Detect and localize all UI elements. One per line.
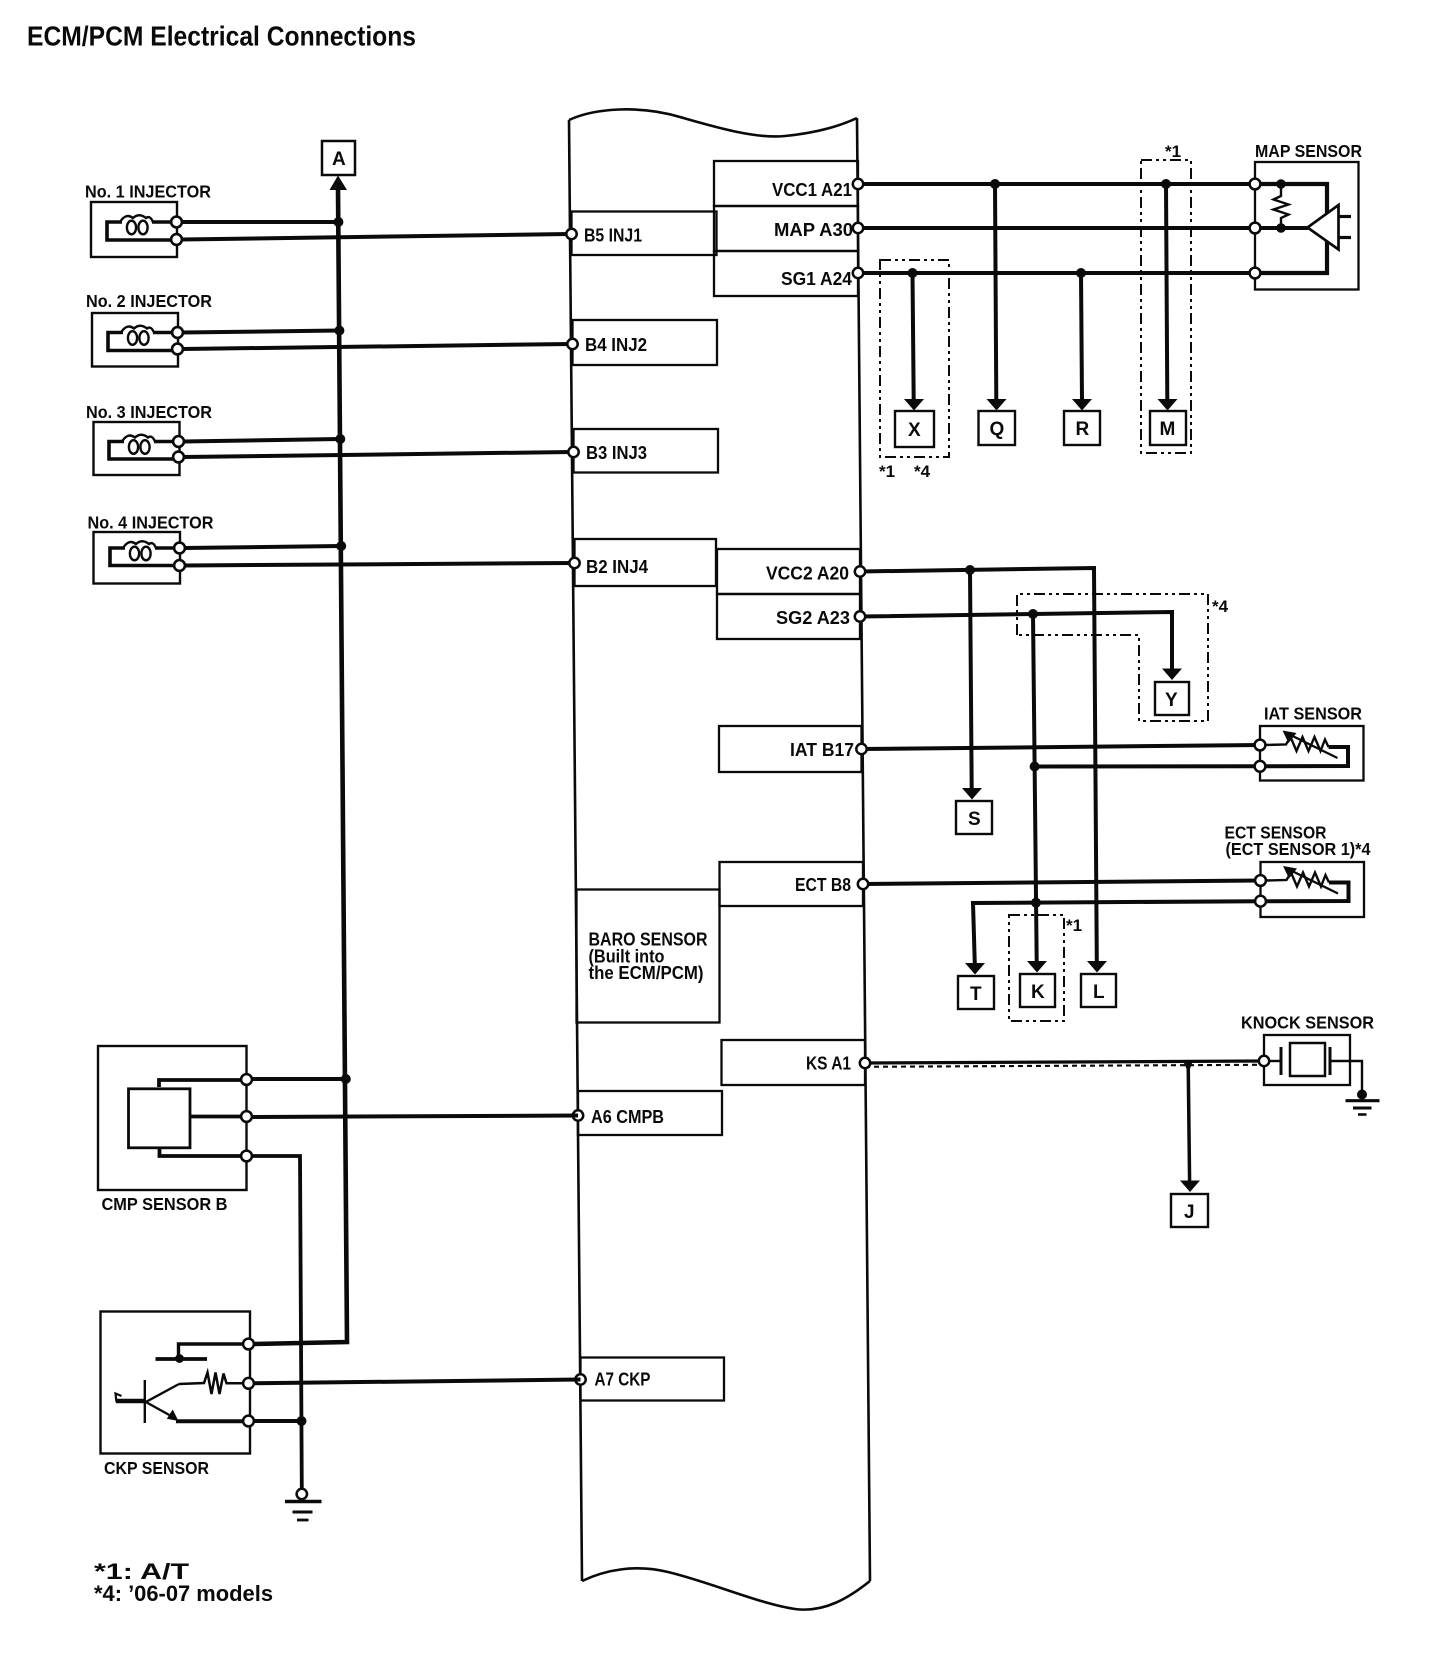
magnet bar <box>116 1399 146 1404</box>
ground symbol <box>285 1489 322 1520</box>
wire MAP A30 to amplifier <box>858 226 1308 230</box>
pin box B3 INJ3 <box>568 429 718 473</box>
wire INJ4 top to bus <box>184 546 341 548</box>
CKP sensor <box>101 1312 251 1454</box>
svg-text:B4 INJ2: B4 INJ2 <box>585 334 647 355</box>
wire drop to X <box>904 268 924 411</box>
wire IAT sensor return <box>1035 764 1261 768</box>
pin box KS A1 <box>722 1040 866 1085</box>
wire INJ2 top to bus <box>182 331 339 333</box>
svg-text:J: J <box>1184 1202 1195 1223</box>
svg-text:X: X <box>908 420 921 441</box>
wire CMP top terminal to bus <box>251 1077 346 1081</box>
svg-text:*4: *4 <box>1212 597 1229 616</box>
pin terminal INJ4 top <box>174 543 185 554</box>
pin terminal VCC1 A21 <box>853 179 863 189</box>
connector S <box>956 801 992 834</box>
svg-text:MAP SENSOR: MAP SENSOR <box>1255 141 1362 161</box>
wire CKP bottom terminal to ground run <box>254 1419 303 1423</box>
MAP sensor <box>1250 141 1363 290</box>
pin terminal CKP middle <box>243 1378 254 1389</box>
wire INJ3 bottom to pin B3 <box>183 452 572 457</box>
svg-text:SG2 A23: SG2 A23 <box>776 607 850 628</box>
svg-text:T: T <box>970 984 982 1005</box>
resistor in MAP sensor <box>1274 184 1289 228</box>
svg-text:No. 3 INJECTOR: No. 3 INJECTOR <box>86 402 212 422</box>
svg-text:No. 2 INJECTOR: No. 2 INJECTOR <box>86 291 212 311</box>
pin box B2 INJ4 <box>569 539 716 586</box>
wire CMP middle terminal to pin A6 <box>251 1116 578 1118</box>
dash-dot box around X (*1 *4) <box>880 260 949 457</box>
pin terminal INJ1 bottom <box>171 234 182 245</box>
dash-dot stepped box around Y (*4) <box>1017 594 1208 721</box>
pin terminal KS A1 <box>860 1058 870 1068</box>
injector No.2 <box>92 313 178 367</box>
svg-text:*1: *1 <box>879 462 895 481</box>
wire drop to S <box>962 565 982 800</box>
MAP sensor terminals <box>1250 179 1261 190</box>
pin terminal SG1 A24 <box>853 268 863 278</box>
svg-text:*1: *1 <box>1066 916 1082 935</box>
wire VCC2 A20 with corner to L <box>860 568 1107 973</box>
wire SG2 A23 with corner to Y <box>860 612 1182 680</box>
BARO sensor note box <box>577 890 720 1023</box>
pin terminal ECT B8 <box>858 879 868 889</box>
svg-text:(ECT SENSOR 1)*4: (ECT SENSOR 1)*4 <box>1226 839 1371 859</box>
wire IAT B17 to IAT sensor <box>862 745 1262 749</box>
pin terminal INJ3 bottom <box>173 452 184 463</box>
connector X <box>895 411 934 447</box>
connector L <box>1081 974 1116 1007</box>
CMP sensor B <box>98 1046 247 1190</box>
connector M <box>1150 411 1186 445</box>
pin terminal SG2 A23 <box>855 611 865 621</box>
svg-text:No. 4 INJECTOR: No. 4 INJECTOR <box>88 513 214 533</box>
svg-text:SG1 A24: SG1 A24 <box>781 268 853 289</box>
injector No.1 <box>91 202 177 257</box>
pin box MAP A30 <box>714 206 858 251</box>
svg-text:B2 INJ4: B2 INJ4 <box>586 556 649 577</box>
pin terminal IAT B17 <box>856 744 866 754</box>
node: junction ground run <box>297 1416 307 1426</box>
pin terminal INJ2 top <box>172 327 183 338</box>
wire: main vertical bus to connector A <box>254 176 347 1345</box>
svg-text:IAT SENSOR: IAT SENSOR <box>1264 704 1362 724</box>
wire drop to M <box>1158 179 1178 411</box>
wire KS shield (dashed) <box>865 1065 1262 1067</box>
connector A <box>322 141 355 175</box>
svg-text:S: S <box>968 809 981 830</box>
ECM/PCM body outline <box>569 109 870 1609</box>
node: junction INJ1/bus <box>333 217 343 227</box>
svg-text:*4: *4 <box>914 462 931 481</box>
wire KS A1 to knock sensor (solid) <box>865 1061 1262 1063</box>
pin box A7 CKP <box>575 1358 724 1401</box>
dash-dot box around M (*1) <box>1141 160 1191 453</box>
svg-text:A6 CMPB: A6 CMPB <box>591 1106 664 1127</box>
pin box IAT B17 <box>719 726 862 772</box>
wire INJ3 top to bus <box>183 439 340 442</box>
ECT sensor <box>1225 823 1371 918</box>
connector T <box>958 976 994 1009</box>
svg-text:B3 INJ3: B3 INJ3 <box>586 442 647 463</box>
pin terminal INJ1 top <box>171 217 182 228</box>
svg-text:L: L <box>1093 982 1105 1003</box>
pin box SG1 A24 <box>714 251 858 296</box>
IAT sensor <box>1255 704 1364 781</box>
svg-text:CMP SENSOR B: CMP SENSOR B <box>102 1194 228 1214</box>
svg-text:K: K <box>1031 982 1045 1003</box>
op-amp in MAP sensor <box>1308 205 1339 250</box>
svg-text:MAP A30: MAP A30 <box>774 219 853 240</box>
svg-text:Q: Q <box>990 419 1005 440</box>
pin terminal INJ3 top <box>173 436 184 447</box>
dash-dot box around K (*1) <box>1009 915 1064 1021</box>
wire drop to Q <box>987 179 1007 411</box>
pin terminal CMP top <box>241 1074 252 1085</box>
wire INJ2 bottom to pin B4 <box>182 344 571 349</box>
injector No.4 <box>94 532 181 584</box>
pin terminal CMP bottom <box>241 1151 252 1162</box>
svg-text:Y: Y <box>1165 690 1178 711</box>
svg-text:KNOCK SENSOR: KNOCK SENSOR <box>1241 1013 1374 1033</box>
pin box SG2 A23 <box>717 594 860 639</box>
svg-text:M: M <box>1160 419 1176 440</box>
coil core bar top <box>179 1344 244 1358</box>
wire INJ1 top to bus <box>181 220 338 224</box>
ground at knock sensor <box>1346 1090 1380 1115</box>
pin terminal CMP middle <box>241 1111 252 1122</box>
svg-text:CKP SENSOR: CKP SENSOR <box>104 1458 209 1478</box>
wire drop SG2 to K <box>1027 609 1047 973</box>
wire SG1 A24 to MAP sensor <box>858 271 1256 275</box>
pin terminal VCC2 A20 <box>855 566 865 576</box>
node: junction INJ3/bus <box>335 434 345 444</box>
svg-text:VCC2 A20: VCC2 A20 <box>766 563 849 584</box>
wire VCC1 A21 to MAP sensor <box>858 182 1256 186</box>
connector Q <box>979 411 1016 445</box>
wire INJ4 bottom to pin B2 <box>184 563 573 566</box>
connector Y <box>1155 682 1189 715</box>
node: junction CMP/bus <box>341 1074 351 1084</box>
pin box B5 INJ1 <box>566 212 716 256</box>
svg-text:the ECM/PCM): the ECM/PCM) <box>589 962 704 983</box>
pin terminal CKP top <box>243 1339 254 1350</box>
svg-text:ECT B8: ECT B8 <box>795 874 851 895</box>
resistor in CKP <box>179 1373 243 1395</box>
connector K <box>1020 974 1055 1007</box>
svg-text:B5 INJ1: B5 INJ1 <box>584 225 642 246</box>
svg-text:*1: *1 <box>1165 142 1181 161</box>
svg-text:R: R <box>1076 419 1090 440</box>
pin box A6 CMPB <box>573 1091 722 1135</box>
pin box VCC1 A21 <box>714 161 858 206</box>
injector No.3 <box>94 422 180 475</box>
svg-text:VCC1 A21: VCC1 A21 <box>772 179 852 200</box>
wire tap drop to J <box>1180 1062 1200 1192</box>
wire CKP middle terminal to pin A7 <box>254 1380 581 1384</box>
svg-text:*4: ’06-07 models: *4: ’06-07 models <box>94 1581 273 1606</box>
wire drop to R <box>1072 268 1092 411</box>
svg-text:ECM/PCM Electrical Connections: ECM/PCM Electrical Connections <box>27 21 416 52</box>
svg-text:IAT B17: IAT B17 <box>790 739 854 760</box>
node: junction INJ2/bus <box>334 326 344 336</box>
wire INJ1 bottom to pin B5 <box>181 234 569 240</box>
svg-text:A: A <box>332 149 346 170</box>
svg-text:A7 CKP: A7 CKP <box>595 1369 651 1390</box>
pin terminal INJ4 bottom <box>174 560 185 571</box>
knock sensor <box>1241 1013 1374 1093</box>
pin terminal CKP bottom <box>243 1416 254 1427</box>
wire ECT B8 to ECT sensor <box>863 881 1261 885</box>
pin box B4 INJ2 <box>567 320 717 365</box>
pin terminal MAP A30 <box>853 223 863 233</box>
svg-text:No. 1 INJECTOR: No. 1 INJECTOR <box>85 182 211 202</box>
pickup pole <box>144 1380 146 1423</box>
wire CMP bottom terminal to ground run <box>251 1156 302 1490</box>
wire ECT sensor return with corner to T <box>965 901 1261 974</box>
pin box VCC2 A20 <box>717 549 860 594</box>
connector R <box>1064 411 1100 445</box>
pin box ECT B8 <box>720 862 864 906</box>
svg-text:KS A1: KS A1 <box>806 1053 851 1074</box>
node: junction INJ4/bus <box>336 541 346 551</box>
pin terminal INJ2 bottom <box>172 344 183 355</box>
connector J <box>1171 1194 1208 1227</box>
